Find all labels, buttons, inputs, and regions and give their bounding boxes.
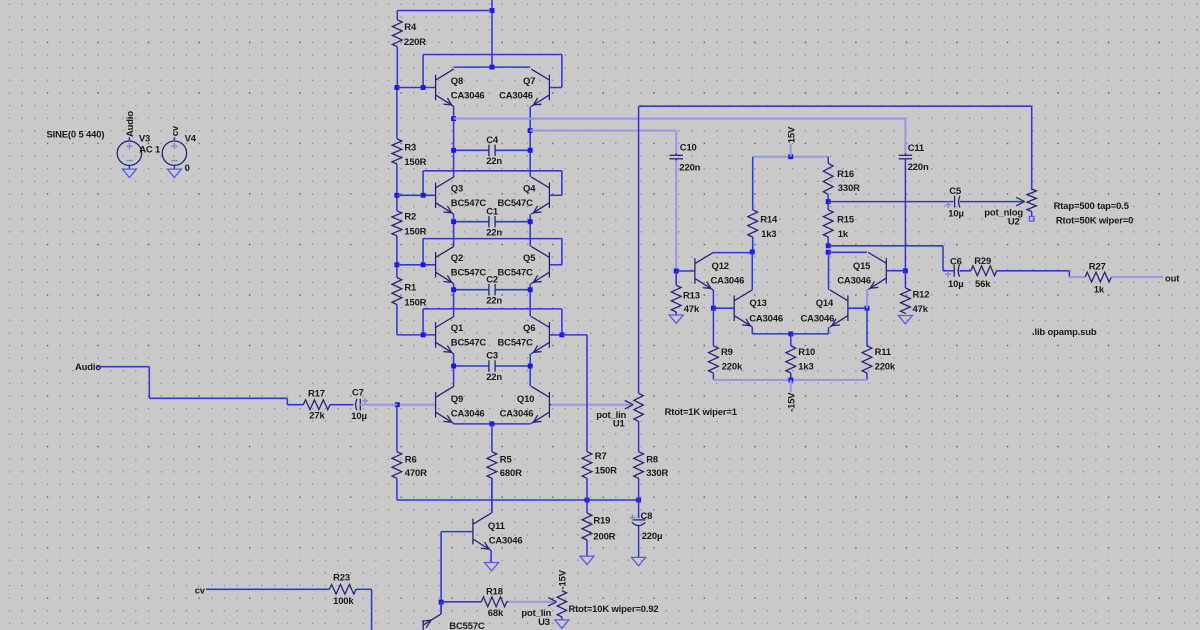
svg-text:Audio: Audio [125, 111, 136, 137]
svg-text:CA3046: CA3046 [749, 313, 783, 324]
svg-text:BC547C: BC547C [498, 338, 534, 349]
svg-text:CA3046: CA3046 [451, 408, 485, 419]
svg-text:R5: R5 [500, 454, 512, 465]
svg-text:R7: R7 [595, 451, 607, 462]
svg-text:Q9: Q9 [451, 394, 463, 405]
svg-text:Q7: Q7 [523, 76, 535, 87]
svg-text:SINE(0 5 440): SINE(0 5 440) [47, 130, 105, 141]
svg-text:R29: R29 [974, 256, 991, 267]
svg-text:150R: 150R [404, 157, 426, 168]
svg-text:Rtot=10K wiper=0.92: Rtot=10K wiper=0.92 [569, 604, 659, 615]
svg-text:U3: U3 [538, 617, 550, 628]
svg-text:out: out [1165, 273, 1180, 284]
svg-text:R18: R18 [486, 586, 503, 597]
svg-text:-15V: -15V [786, 392, 797, 412]
svg-text:R13: R13 [683, 290, 700, 301]
svg-text:220k: 220k [722, 361, 743, 372]
svg-text:C4: C4 [486, 135, 499, 146]
svg-text:22n: 22n [486, 372, 502, 383]
svg-text:Q4: Q4 [523, 184, 536, 195]
svg-text:680R: 680R [500, 468, 522, 479]
svg-text:1k: 1k [1094, 284, 1105, 295]
svg-text:Q5: Q5 [523, 253, 535, 264]
svg-text:R14: R14 [760, 214, 778, 225]
svg-text:R12: R12 [913, 290, 930, 301]
svg-text:Audio: Audio [75, 362, 101, 373]
svg-text:C3: C3 [486, 351, 498, 362]
svg-text:Q2: Q2 [451, 253, 463, 264]
svg-text:22n: 22n [486, 156, 502, 167]
svg-text:BC547C: BC547C [498, 198, 534, 209]
svg-text:22n: 22n [486, 228, 502, 239]
svg-text:R4: R4 [404, 22, 417, 33]
svg-text:C8: C8 [641, 511, 653, 522]
svg-text:C11: C11 [908, 143, 924, 154]
svg-text:CA3046: CA3046 [500, 408, 534, 419]
svg-text:220k: 220k [875, 361, 896, 372]
svg-text:Q12: Q12 [712, 261, 729, 272]
svg-text:R23: R23 [333, 572, 350, 583]
svg-text:47k: 47k [913, 304, 929, 315]
svg-text:CA3046: CA3046 [489, 535, 523, 546]
svg-text:Q15: Q15 [853, 261, 870, 272]
svg-text:22n: 22n [486, 296, 502, 307]
svg-text:CA3046: CA3046 [837, 275, 871, 286]
svg-text:R15: R15 [837, 214, 854, 225]
svg-text:Q6: Q6 [523, 323, 535, 334]
svg-text:CA3046: CA3046 [711, 275, 745, 286]
svg-text:BC547C: BC547C [451, 268, 487, 279]
svg-text:cv: cv [195, 586, 206, 597]
svg-text:56k: 56k [975, 279, 991, 290]
svg-text:220n: 220n [908, 162, 929, 173]
svg-text:470R: 470R [405, 468, 427, 479]
svg-text:R8: R8 [646, 454, 658, 465]
svg-text:CA3046: CA3046 [451, 90, 485, 101]
svg-text:C2: C2 [486, 274, 498, 285]
svg-text:330R: 330R [838, 183, 860, 194]
svg-text:R16: R16 [837, 169, 854, 180]
svg-text:1k3: 1k3 [798, 361, 813, 372]
svg-text:0: 0 [185, 163, 190, 174]
svg-text:Q13: Q13 [749, 298, 766, 309]
svg-text:R17: R17 [308, 388, 325, 399]
svg-text:BC547C: BC547C [498, 268, 534, 279]
svg-text:C1: C1 [486, 206, 498, 217]
svg-text:68k: 68k [488, 608, 504, 619]
svg-text:10µ: 10µ [948, 279, 964, 290]
svg-text:R11: R11 [875, 347, 891, 358]
svg-text:27k: 27k [309, 411, 325, 422]
svg-text:Q8: Q8 [451, 76, 463, 87]
svg-text:V4: V4 [185, 134, 197, 145]
svg-text:R10: R10 [798, 347, 815, 358]
svg-text:U2: U2 [1008, 216, 1020, 227]
svg-text:CA3046: CA3046 [801, 313, 835, 324]
svg-text:100k: 100k [333, 596, 354, 607]
svg-text:U1: U1 [613, 419, 625, 430]
svg-text:.lib opamp.sub: .lib opamp.sub [1032, 327, 1097, 338]
svg-text:-15V: -15V [557, 569, 568, 589]
svg-text:R9: R9 [721, 347, 733, 358]
svg-text:CA3046: CA3046 [499, 90, 533, 101]
svg-text:10µ: 10µ [351, 411, 367, 422]
svg-text:Q1: Q1 [451, 323, 463, 334]
svg-text:220µ: 220µ [642, 531, 663, 542]
svg-text:220R: 220R [404, 37, 426, 48]
svg-text:R6: R6 [405, 454, 417, 465]
svg-text:47k: 47k [684, 304, 700, 315]
svg-text:C5: C5 [949, 186, 961, 197]
svg-text:10µ: 10µ [948, 209, 964, 220]
svg-text:Rtot=1K wiper=1: Rtot=1K wiper=1 [665, 407, 737, 418]
svg-text:Q14: Q14 [816, 298, 834, 309]
svg-text:Rtap=500 tap=0.5: Rtap=500 tap=0.5 [1054, 201, 1129, 212]
svg-text:220n: 220n [679, 163, 700, 174]
svg-text:BC557C: BC557C [449, 621, 485, 630]
svg-text:R27: R27 [1089, 261, 1106, 272]
svg-text:1k: 1k [838, 229, 849, 240]
svg-text:150R: 150R [404, 297, 426, 308]
svg-text:Rtot=50K wiper=0: Rtot=50K wiper=0 [1056, 215, 1133, 226]
svg-text:15V: 15V [786, 126, 797, 143]
svg-text:1k3: 1k3 [761, 229, 776, 240]
svg-text:V3: V3 [139, 134, 150, 145]
svg-text:150R: 150R [595, 465, 617, 476]
svg-text:BC547C: BC547C [451, 198, 487, 209]
svg-text:cv: cv [170, 125, 181, 136]
svg-text:Q3: Q3 [451, 184, 463, 195]
svg-text:R1: R1 [404, 282, 416, 293]
svg-text:Q10: Q10 [517, 394, 534, 405]
svg-text:150R: 150R [404, 226, 426, 237]
svg-text:AC 1: AC 1 [139, 145, 160, 156]
svg-text:R2: R2 [404, 211, 416, 222]
svg-text:C6: C6 [950, 256, 962, 267]
svg-text:200R: 200R [593, 531, 615, 542]
svg-text:Q11: Q11 [488, 521, 505, 532]
svg-text:BC547C: BC547C [451, 338, 487, 349]
svg-text:C7: C7 [352, 388, 364, 399]
svg-text:R3: R3 [404, 142, 416, 153]
svg-text:R19: R19 [593, 515, 610, 526]
svg-text:330R: 330R [646, 468, 668, 479]
svg-text:C10: C10 [680, 143, 697, 154]
